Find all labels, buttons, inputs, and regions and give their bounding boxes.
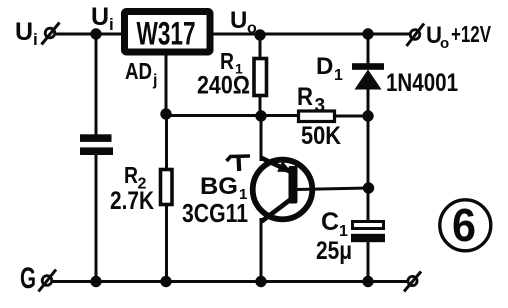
- label Ui input: [15, 18, 38, 49]
- label C1: [321, 208, 348, 240]
- svg-text:R: R: [220, 48, 234, 74]
- junction input node: [90, 28, 101, 39]
- junction base node: [363, 182, 374, 193]
- svg-text:U: U: [15, 18, 33, 46]
- svg-text:U: U: [91, 3, 109, 31]
- junction ground C1: [362, 276, 373, 287]
- resistor R3: [299, 111, 335, 122]
- svg-text:240Ω: 240Ω: [197, 72, 250, 100]
- transistor base bar: [289, 166, 298, 204]
- wire R1 bottom lead: [259, 96, 262, 117]
- svg-text:i: i: [109, 15, 114, 34]
- resistor R2: [161, 170, 173, 205]
- svg-text:i: i: [33, 30, 38, 49]
- svg-text:3CG11: 3CG11: [182, 198, 248, 228]
- label ADj: [125, 58, 157, 89]
- wire top rail W317 to output terminal: [213, 33, 410, 36]
- svg-text:1: 1: [334, 67, 343, 84]
- label T: [227, 156, 251, 171]
- wire C1 top lead: [367, 188, 370, 222]
- wire input capacitor to ground: [95, 154, 98, 282]
- svg-text:W317: W317: [137, 16, 196, 52]
- capacitor C1: [351, 222, 385, 243]
- terminal Ui input: [42, 23, 60, 45]
- diode D1: [352, 63, 384, 89]
- label BG1: [200, 173, 247, 203]
- label Uo: [230, 7, 257, 37]
- label D1: [316, 53, 343, 84]
- wire base horizontal: [296, 188, 369, 190]
- wire ADJ horizontal to R3: [165, 114, 299, 117]
- svg-text:AD: AD: [125, 58, 152, 84]
- wire input to W317: [56, 33, 122, 36]
- svg-text:D: D: [316, 53, 333, 80]
- junction ADJ node: [160, 108, 171, 119]
- junction ground capacitor: [90, 276, 101, 287]
- capacitor C2 input: [80, 134, 113, 155]
- svg-text:o: o: [440, 35, 449, 52]
- svg-text:G: G: [20, 262, 36, 295]
- svg-text:50K: 50K: [301, 122, 341, 150]
- label R2: [124, 162, 147, 193]
- terminal G: [39, 270, 57, 292]
- junction ground collector: [255, 276, 266, 287]
- junction R1 top: [254, 29, 265, 40]
- label R1: [220, 48, 243, 77]
- transistor collector line: [262, 200, 291, 222]
- svg-text:j: j: [152, 72, 157, 89]
- resistor R1: [254, 59, 267, 96]
- wire ADJ node down to R2: [165, 114, 168, 170]
- wire ground rail: [52, 280, 407, 283]
- svg-text:3: 3: [315, 96, 326, 117]
- junction R1 bottom: [255, 110, 266, 121]
- junction D1 top: [362, 28, 373, 39]
- wire C1 bottom lead: [367, 241, 370, 282]
- transistor emitter line: [261, 158, 291, 172]
- label Ui node: [91, 3, 114, 34]
- transistor Q1 BG1 circle: [253, 160, 313, 220]
- label Uo +12V: [426, 21, 491, 52]
- transistor emitter arrow: [277, 161, 291, 172]
- junction R3 right: [362, 110, 373, 121]
- terminal ground right: [404, 272, 421, 292]
- svg-text:BG: BG: [200, 173, 238, 200]
- wire collector lead to ground: [260, 218, 263, 282]
- wire R2 bottom lead: [165, 204, 168, 282]
- terminal Uo output: [407, 24, 425, 47]
- wire R1 top lead: [259, 35, 262, 60]
- svg-text:25μ: 25μ: [316, 237, 352, 265]
- wire emitter lead from R1 bottom: [260, 116, 263, 161]
- svg-text:U: U: [230, 7, 247, 34]
- svg-text:C: C: [321, 208, 339, 236]
- junction ground R2: [160, 276, 171, 287]
- label R3: [297, 83, 325, 117]
- svg-text:2.7K: 2.7K: [110, 187, 154, 215]
- wire ADJ pin vertical: [165, 54, 168, 115]
- wire base net vertical: [367, 116, 370, 188]
- svg-text:R: R: [297, 83, 313, 111]
- svg-text:+12V: +12V: [451, 21, 491, 47]
- svg-text:1N4001: 1N4001: [386, 69, 458, 97]
- wire D1 top lead: [367, 34, 370, 64]
- wire node to input capacitor: [95, 34, 98, 135]
- svg-text:6: 6: [452, 199, 476, 251]
- svg-text:R: R: [124, 162, 138, 188]
- regulator U1 W317: [125, 12, 211, 53]
- wire D1 bottom lead: [367, 88, 370, 117]
- figure number 6: [440, 199, 491, 251]
- wire R3 right to junction: [334, 115, 369, 118]
